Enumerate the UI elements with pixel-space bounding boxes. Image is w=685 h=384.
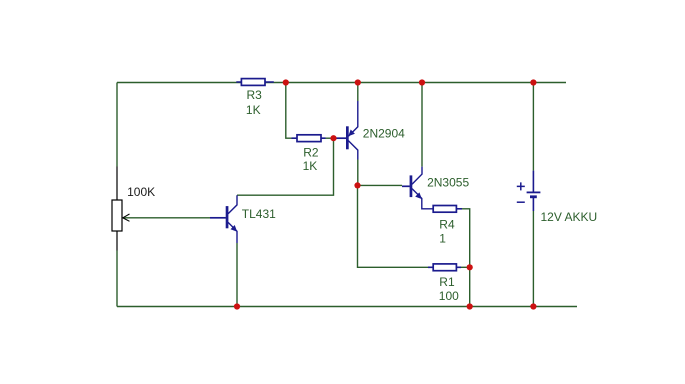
wire 2N3055 collector to top rail	[421, 83, 423, 167]
wire left vertical lower	[116, 251, 118, 307]
svg-text:R2: R2	[303, 145, 319, 159]
svg-text:100K: 100K	[127, 185, 155, 199]
wire R1 junction down to bottom rail	[469, 267, 471, 306]
wire R4 right to R1 right junction	[462, 209, 470, 267]
node junction top rail / 2N3055 collector	[419, 79, 425, 85]
node junction bottom rail / R1 leg	[467, 303, 473, 309]
transistor Q1 2N2904	[334, 101, 406, 160]
wire bottom rail	[117, 306, 577, 308]
svg-text:R3: R3	[247, 88, 263, 102]
wire left vertical upper	[116, 83, 118, 167]
resistor R3	[236, 79, 273, 117]
wire junction down to TL431 collector level	[237, 138, 334, 195]
node junction top rail / battery plus	[530, 79, 536, 85]
node junction top rail / R3 right	[283, 79, 289, 85]
wire node to 2N3055 base	[358, 184, 403, 186]
TL431 U1	[210, 195, 276, 243]
svg-text:1: 1	[439, 232, 446, 246]
svg-text:12V AKKU: 12V AKKU	[541, 210, 598, 224]
wire top rail	[117, 82, 566, 84]
svg-text:R1: R1	[439, 275, 455, 289]
wire node down to R1 left	[358, 185, 429, 267]
wire R2 right to junction	[326, 137, 334, 139]
battery B1 12V AKKU	[517, 171, 597, 225]
svg-text:R4: R4	[439, 218, 455, 232]
node junction bottom rail / battery minus	[530, 303, 536, 309]
node junction R2 right / 2N2904 base	[330, 135, 336, 141]
potentiometer P1 100K	[112, 167, 155, 251]
svg-text:1K: 1K	[303, 159, 318, 173]
node junction 2N2904 collector / 2N3055 base	[354, 182, 360, 188]
svg-text:TL431: TL431	[242, 207, 276, 221]
svg-text:2N3055: 2N3055	[427, 176, 469, 190]
svg-text:1K: 1K	[246, 103, 261, 117]
resistor R4	[433, 206, 462, 246]
wire 2N2904 collector down to node	[357, 160, 359, 186]
transistor Q2 2N3055	[402, 167, 469, 209]
wire 2N2904 emitter to top rail	[357, 83, 359, 102]
resistor R1	[428, 264, 461, 303]
node junction R4-R1 right	[467, 264, 473, 270]
wire from top rail down to R2	[286, 83, 292, 139]
svg-text:2N2904: 2N2904	[363, 126, 405, 140]
svg-text:100: 100	[439, 289, 459, 303]
node junction bottom rail / TL431 emitter	[234, 303, 240, 309]
wire TL431 emitter down to bottom rail	[236, 243, 238, 307]
wire R1 right stub	[461, 266, 470, 268]
resistor R2	[292, 135, 326, 173]
node junction top rail / 2N2904 emitter	[355, 79, 361, 85]
wire battery bottom to rail	[532, 211, 534, 307]
wire pot wiper to TL431 base	[124, 217, 211, 219]
wire battery top to rail	[532, 83, 534, 171]
